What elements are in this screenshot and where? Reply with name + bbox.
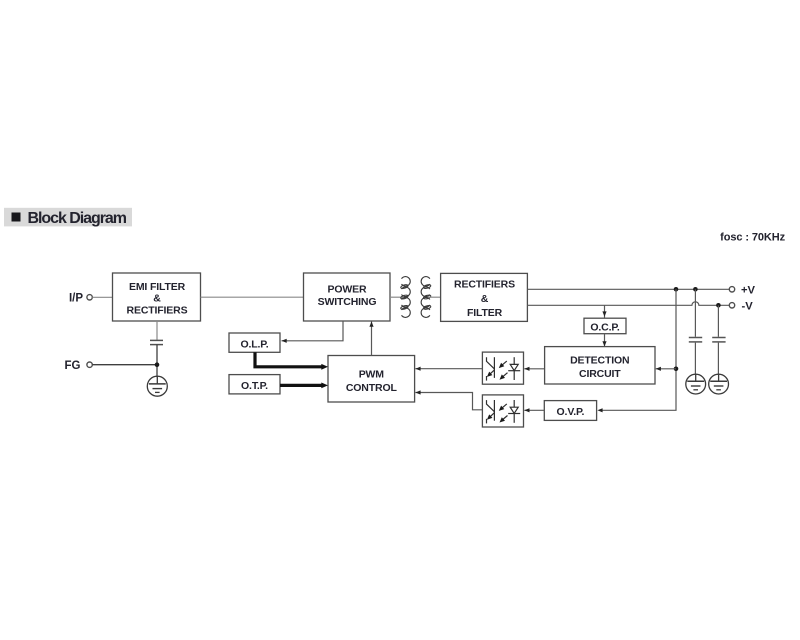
wire capacitor C3 down to FG node [156,345,158,378]
optocoupler U1 LED [508,357,520,380]
optocoupler U2 phototransistor [487,400,495,423]
wire transformer secondary to RECTIFIERS & FILTER [429,296,441,298]
node junction OVP-feed / detection wire [674,367,679,372]
svg-text:RECTIFIERS: RECTIFIERS [127,305,188,317]
optocoupler U2 light arrows [499,404,508,423]
thick wire O.T.P. to PWM CONTROL (arrow right into PWM) [280,383,328,389]
wire +V rail [527,288,729,290]
block O.V.P. [544,401,596,421]
svg-text:O.V.P.: O.V.P. [557,406,585,418]
svg-text:O.C.P.: O.C.P. [590,322,619,334]
capacitor C3 (Y-cap to FG) [150,340,163,344]
optocoupler U2 box [482,395,523,427]
svg-text:FG: FG [65,360,81,372]
optocoupler U1 light arrows [499,361,508,380]
transformer T1 primary winding [400,277,410,318]
wire PWM CONTROL up to POWER SWITCHING (arrow up) [369,322,373,356]
svg-text:EMI FILTER: EMI FILTER [129,281,186,293]
capacitor C1 (+V output cap) [689,289,702,374]
wire FG to ground node [92,364,157,366]
thick wire O.L.P. to PWM CONTROL (arrow right into PWM) [255,352,328,369]
block POWER SWITCHING [304,273,391,321]
svg-text:PWM: PWM [359,369,385,381]
optocoupler U1 box [482,352,523,384]
svg-text:+V: +V [741,285,756,297]
svg-text:DETECTION: DETECTION [570,355,629,367]
svg-text:CIRCUIT: CIRCUIT [579,368,621,380]
optocoupler U1 emitter arrowhead [487,372,493,377]
section header "Block Diagram" [4,208,132,227]
wire EMI FILTER down to capacitor C3 [156,321,158,340]
block RECTIFIERS & FILTER [441,273,528,321]
block DETECTION CIRCUIT [545,347,655,384]
wire DETECTION CIRCUIT to optocoupler U1 (arrow left into opto) [524,367,544,371]
svg-text:I/P: I/P [69,292,83,304]
block O.T.P. [229,375,280,394]
svg-text:Block Diagram: Block Diagram [28,210,127,227]
wire optocoupler U2 to PWM CONTROL (elbow, arrow left into PWM) [415,390,482,409]
wire POWER SWITCHING down to O.L.P. (arrow left into OLP) [282,321,344,343]
svg-text:fosc : 70KHz: fosc : 70KHz [720,231,785,243]
block EMI FILTER & RECTIFIERS [113,273,201,321]
wire optocoupler U1 to PWM CONTROL (arrow left into PWM) [415,367,482,371]
svg-text:RECTIFIERS: RECTIFIERS [454,279,515,291]
wire O.V.P. to optocoupler U2 (arrow left into opto) [524,408,544,412]
svg-text:-V: -V [742,301,754,313]
wire POWER SWITCHING to transformer primary [390,296,403,298]
svg-text:&: & [153,293,161,305]
wire EMI FILTER to POWER SWITCHING [201,296,304,298]
block O.L.P. [229,333,280,352]
block O.C.P. [584,318,626,334]
transformer T1 secondary winding [421,277,431,318]
ground symbol G2 (under C1) [686,374,706,394]
optocoupler U2 LED [508,400,520,423]
ground symbol G3 (under C2) [709,374,729,394]
svg-text:O.L.P.: O.L.P. [240,338,268,350]
wire -V to O.C.P. (arrow down) [602,305,606,318]
terminal FG [65,360,93,372]
node junction +V / cap C1 [693,287,698,292]
svg-text:O.T.P.: O.T.P. [241,380,268,392]
block PWM CONTROL [328,356,415,403]
node junction +V / OVP feed [674,287,679,292]
svg-text:POWER: POWER [328,284,367,296]
wire -V rail (with hop over cap branch at x=695.4) [527,302,729,306]
terminal I/P [69,292,92,304]
node junction FG [155,362,160,367]
optocoupler U1 phototransistor [487,357,495,380]
capacitor C2 (-V output cap) [712,305,725,374]
node junction -V / cap C2 [716,303,721,308]
ground symbol G1 (FG earth) [147,376,167,396]
svg-text:&: & [481,293,489,305]
optocoupler U2 emitter arrowhead [487,414,493,419]
wire +V branch to DETECTION CIRCUIT right (arrow left) [656,367,676,371]
svg-text:FILTER: FILTER [467,307,503,319]
terminal +V [729,285,755,297]
svg-text:CONTROL: CONTROL [346,382,398,394]
svg-text:SWITCHING: SWITCHING [318,296,377,308]
wire +V branch down to O.V.P. [597,289,676,412]
terminal -V [729,301,753,313]
wire I/P to EMI FILTER [92,296,112,298]
wire O.C.P. to DETECTION CIRCUIT (arrow down) [602,334,606,347]
